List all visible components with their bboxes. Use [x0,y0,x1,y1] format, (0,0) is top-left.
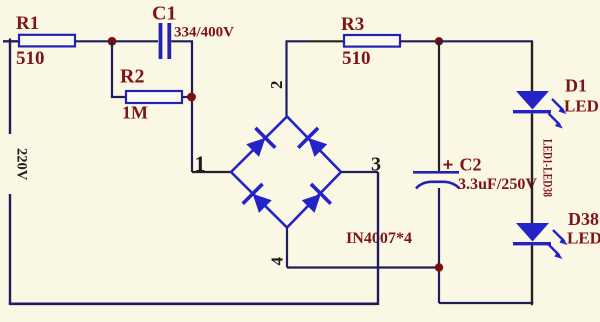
wire: R2 right lead [182,96,192,98]
diode D-TR (node3 to node2) [297,127,331,161]
wire: node 4 horizontal to junction D [287,266,439,268]
LED D38 [513,223,568,259]
svg-text:3.3uF/250V: 3.3uF/250V [458,176,537,193]
svg-text:C2: C2 [460,155,482,175]
wire: node 3 vertical riser [377,172,379,305]
wire: top rail black segment before R3 [308,40,344,42]
junction D [435,263,443,271]
wire: between D1 and D38 [531,114,533,224]
diode D-BL (node4 to node1) [241,183,275,217]
bridge rectifier IN4007*4 : diamond [231,117,341,228]
wire: left rail upper segment (220V source lead) [3,39,19,135]
svg-text:510: 510 [342,48,371,69]
wire: left rail lower segment [9,194,11,304]
wire: junction C to LED string corner [439,40,533,42]
resistor R1 [19,35,75,47]
svg-text:334/400V: 334/400V [174,25,234,41]
wire: node 4 vertical down [286,228,288,268]
svg-text:1: 1 [195,151,206,176]
svg-text:LED: LED [564,97,599,116]
capacitor C1 [159,23,172,59]
wire: top rail node2 corner to R3 [286,40,309,42]
junction C [435,37,443,45]
wire: top of LED string down to D1 [531,41,533,91]
wire: D38 cathode down to bottom right corner [532,245,533,304]
polarity + of C2 [444,160,453,169]
resistor R3 [344,35,400,47]
svg-text:4: 4 [268,257,287,266]
wire: junction A to C1 left plate [112,40,158,42]
wire: bottom right horizontal to LED string [439,302,533,304]
svg-text:220V: 220V [14,148,30,181]
svg-text:LED1-LED38: LED1-LED38 [541,139,555,197]
junction B (R2 right / C1 branch) [187,93,196,102]
wire: junction A down to R2 [112,41,126,97]
wire: node 1 horizontal to bridge left vertex [192,171,231,173]
LED D1 [513,91,567,129]
junction A [108,37,117,46]
svg-text:R2: R2 [120,66,144,88]
wire: C2 bottom plate down through junction D to bottom right corner [438,188,440,303]
capacitor C2 (polarized) [413,171,460,189]
svg-text:R3: R3 [341,14,364,35]
wire: R1 right lead to junction A [75,40,112,42]
wire: bottom return wire [9,302,378,305]
wire: R3 right lead to junction C [400,40,439,42]
svg-text:D38: D38 [568,209,599,229]
resistor R2 [126,91,182,103]
svg-text:510: 510 [16,48,45,69]
diode D-TL (node1 to node2) [243,127,277,161]
diode D-BR (node4 to node3) [298,183,332,217]
svg-text:LED: LED [567,229,600,248]
svg-text:D1: D1 [565,76,587,96]
wire: C1 right plate to corner, down to node 1 [171,41,192,172]
svg-text:C1: C1 [152,3,176,25]
svg-text:R1: R1 [16,13,39,34]
wire: node 3 horizontal to bridge [341,171,378,173]
svg-text:1M: 1M [122,103,148,123]
wire: junction C down to C2 [438,41,440,171]
wire: node 2 vertical from bridge top to top rail [285,41,287,117]
svg-text:2: 2 [267,81,286,90]
